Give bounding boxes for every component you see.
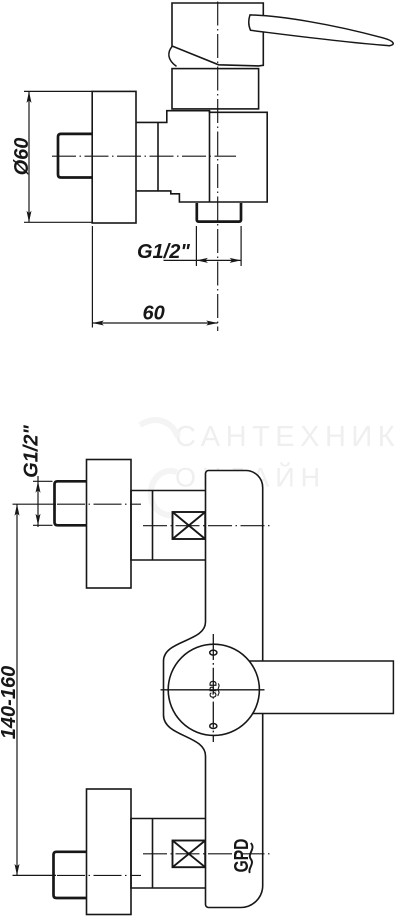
svg-text:GPD: GPD: [230, 839, 252, 873]
mixer body column: [164, 471, 263, 908]
bottom eccentric X symbol: [173, 841, 206, 868]
wall nipple thread (side): [58, 134, 92, 178]
lever blade: [249, 15, 393, 46]
top body centerline: [143, 525, 271, 527]
dimension G1/2" (outlet): [164, 226, 242, 266]
screw top: [210, 650, 217, 655]
main body block outline: [136, 111, 267, 202]
dimension 60 (wall to axis): [92, 226, 217, 328]
wall flange (side): [92, 91, 136, 223]
svg-text:60: 60: [143, 303, 165, 325]
top eccentric X symbol: [173, 512, 206, 539]
cartridge circle: [168, 644, 259, 735]
dimension 140-160: [13, 504, 57, 875]
bottom body centerline: [143, 853, 271, 855]
cap neck arc: [169, 47, 177, 67]
body column front edge: [209, 111, 211, 202]
tiny GPD mark in circle: [208, 680, 219, 698]
svg-text:G1/2": G1/2": [20, 425, 42, 478]
body block divider: [157, 122, 159, 190]
svg-text:Ø60: Ø60: [11, 138, 33, 176]
svg-text:GPD: GPD: [208, 680, 219, 698]
lever handle (front): [250, 661, 393, 714]
top wall nipple thread: [55, 481, 88, 525]
svg-text:140-160: 140-160: [0, 666, 20, 739]
circle crosshair vertical: [212, 634, 214, 742]
escutcheon mid body: [172, 69, 259, 109]
shower outlet nipple: [197, 203, 241, 222]
GPD logo swoosh: [249, 843, 252, 873]
cap head of lever: [172, 3, 263, 66]
dimension G1/2" (front inlet): [33, 476, 53, 527]
bottom wall nipple thread: [54, 852, 88, 898]
centerline horizontal (wall axis, top view): [52, 155, 236, 157]
centerline vertical (body axis, top view): [217, 2, 219, 332]
top wall flange (front): [87, 460, 132, 589]
svg-text:САНТЕХНИК: САНТЕХНИК: [175, 421, 399, 453]
dimension Ø60: [24, 91, 92, 222]
top eccentric adapter: [131, 491, 206, 561]
circle crosshair horizontal: [161, 689, 265, 691]
screw bottom: [210, 724, 217, 729]
svg-text:G1/2": G1/2": [137, 241, 190, 263]
watermark big letter fragments: [140, 420, 179, 515]
top wall centerline: [57, 503, 141, 505]
bottom wall flange (front): [87, 789, 132, 915]
bottom eccentric adapter: [131, 819, 206, 889]
bottom wall centerline: [57, 874, 141, 876]
